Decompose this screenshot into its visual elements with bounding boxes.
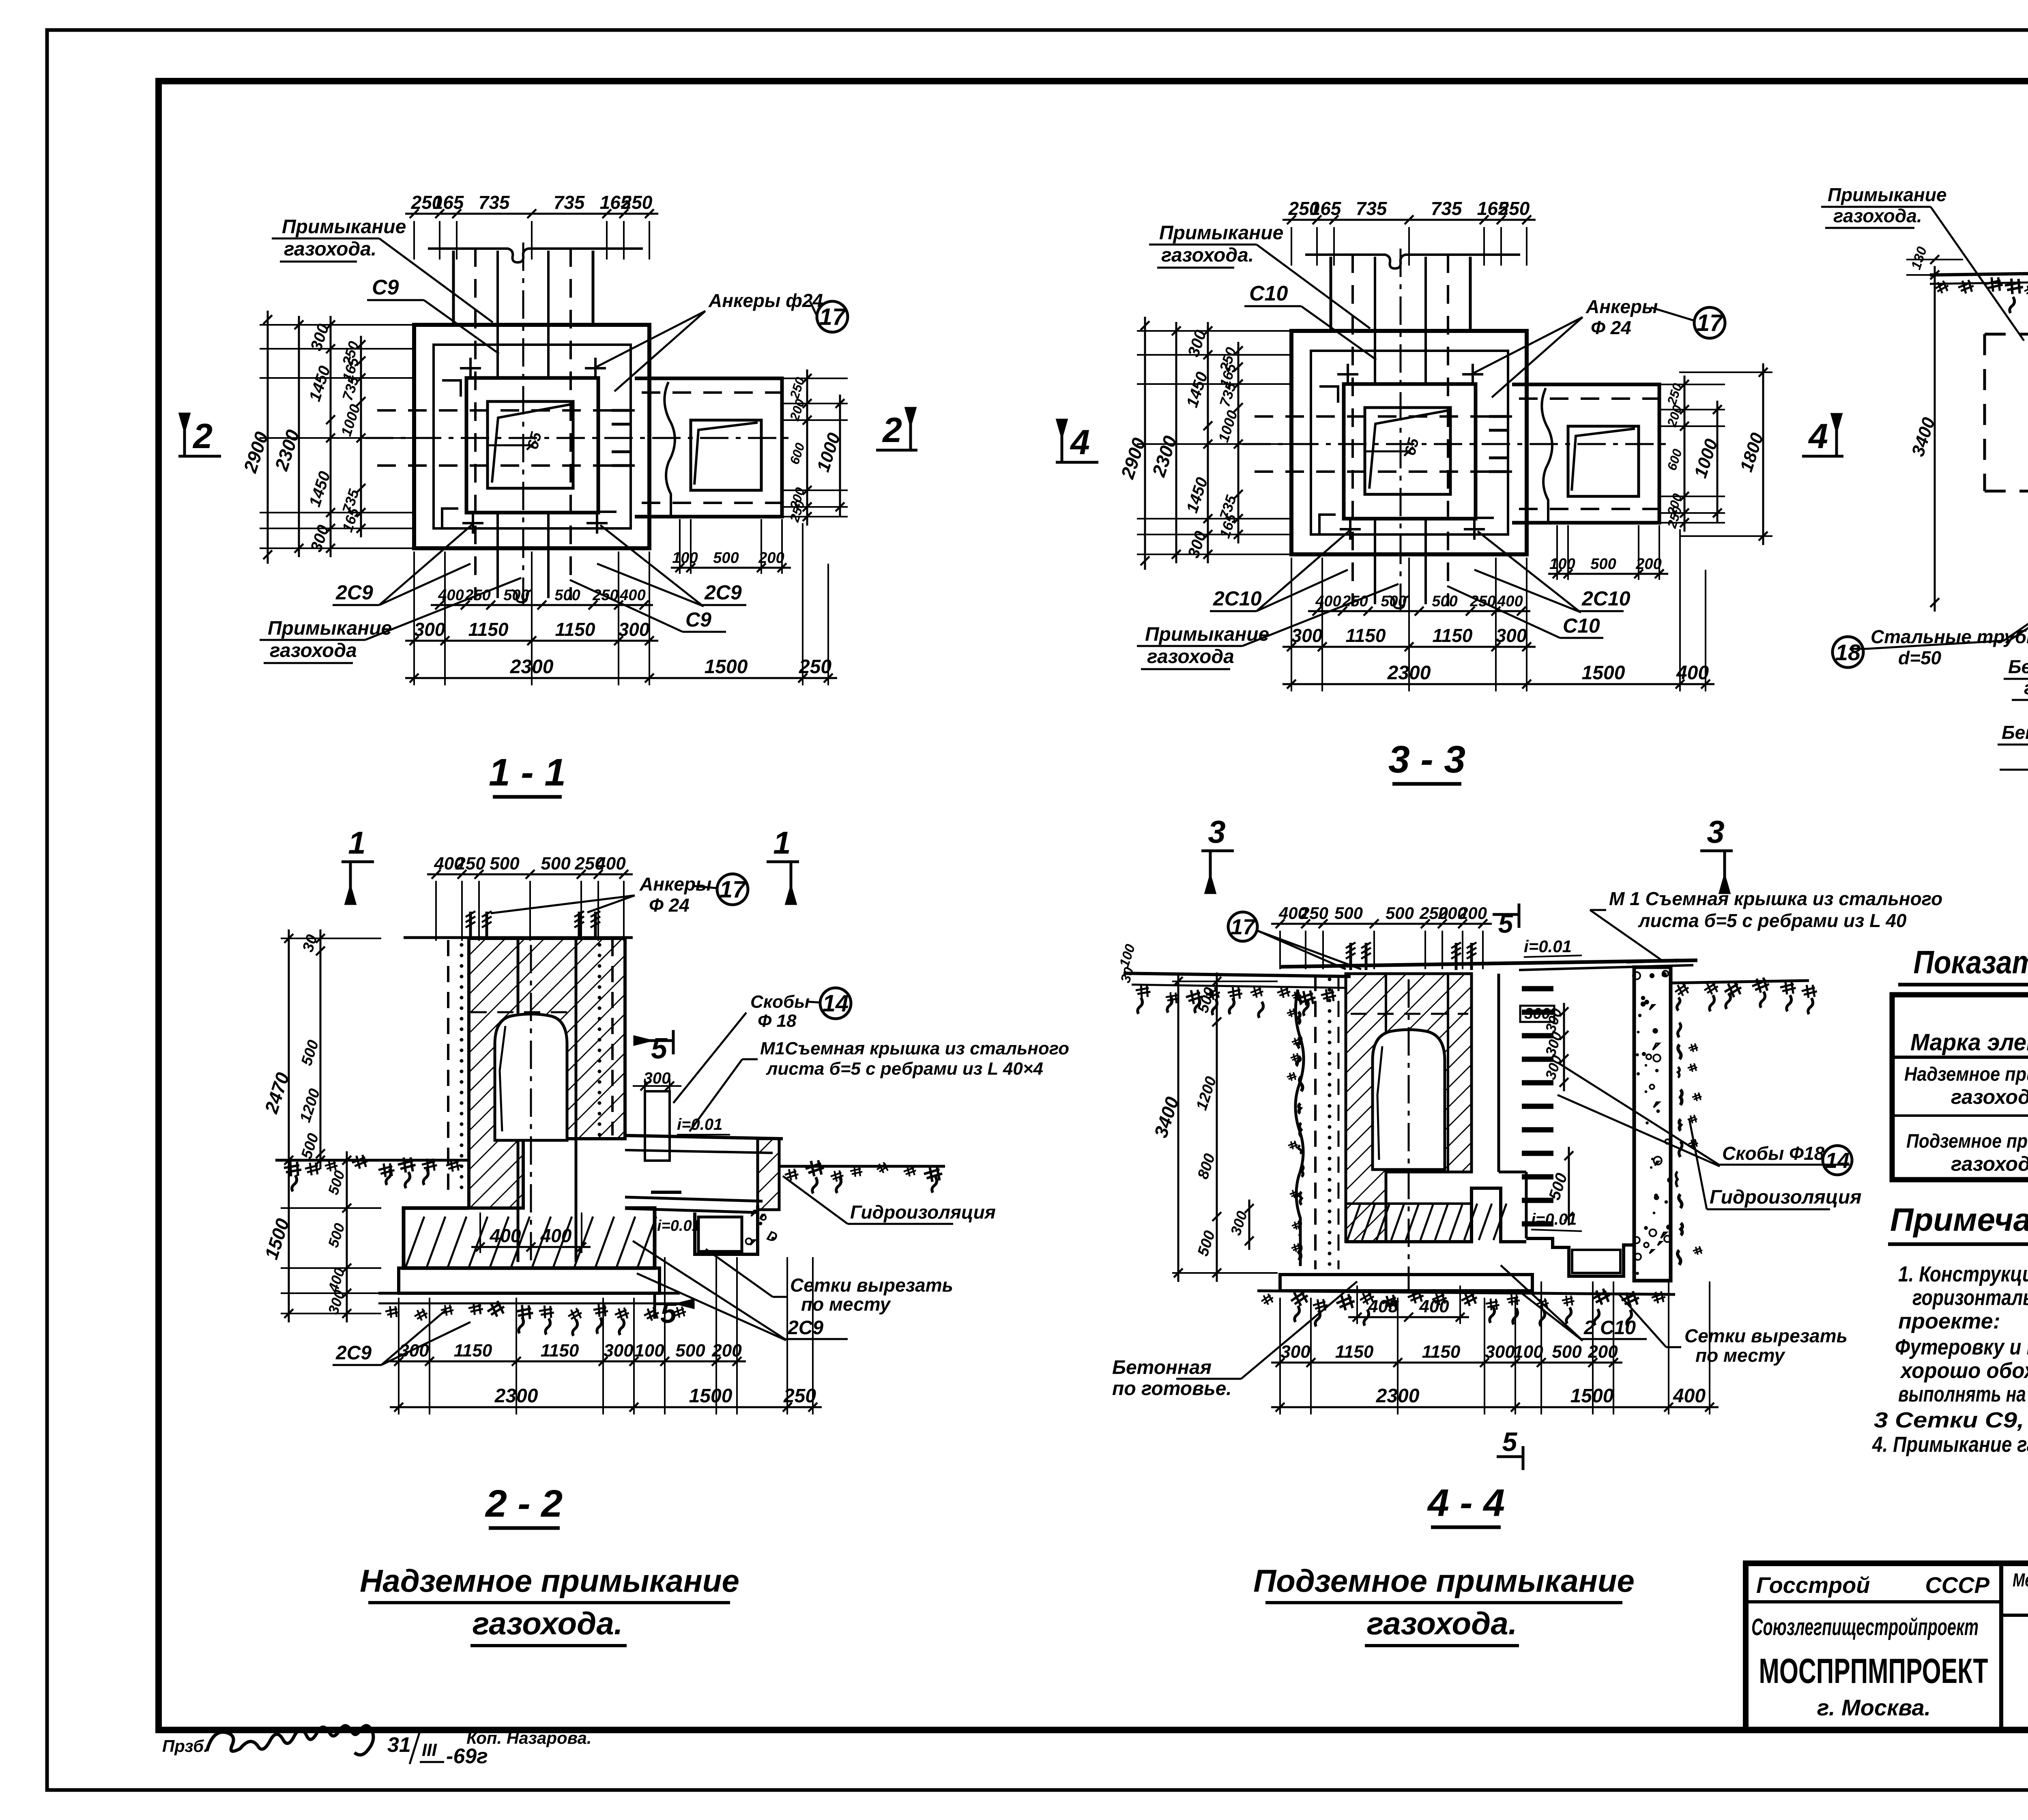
svg-text:4: 4	[1070, 423, 1090, 462]
callout circle 14 4-4	[1823, 1146, 1852, 1175]
svg-text:1150: 1150	[1422, 1342, 1461, 1362]
section 4-4 300 boxed dim	[1520, 1006, 1554, 1022]
svg-text:100: 100	[1549, 556, 1575, 573]
svg-text:хорошо обожженного кирпича,: хорошо обожженного кирпича, М 100. Футер…	[1899, 1359, 2028, 1383]
section 4-4 ground cover line left	[1124, 973, 1351, 977]
section 4-4 chimney masonry body hatched	[1346, 974, 1472, 1242]
svg-text:Союзлегпищестройпроект: Союзлегпищестройпроект	[1751, 1614, 1979, 1640]
view 3-3 right dimension chains	[1684, 376, 1686, 532]
svg-text:Анкеры: Анкеры	[639, 874, 711, 895]
svg-text:165: 165	[1310, 198, 1342, 219]
svg-text:250: 250	[1469, 593, 1495, 610]
svg-text:Надземное примыкание: Надземное примыкание	[360, 1563, 739, 1599]
view 3-3 bottom dimension chains	[1308, 610, 1530, 612]
section 4-4 lining wall lines	[1385, 974, 1387, 1242]
svg-text:Надземное примыкание: Надземное примыкание	[1904, 1064, 2028, 1085]
svg-text:400: 400	[1419, 1296, 1449, 1316]
svg-text:1150: 1150	[468, 619, 509, 640]
section 4-4 right concrete wall	[1634, 967, 1671, 1281]
callout circle 17	[817, 301, 848, 332]
svg-text:17: 17	[1231, 915, 1256, 939]
view 1-1 flue opening	[488, 401, 573, 488]
svg-text:17: 17	[819, 304, 846, 330]
svg-text:С10: С10	[1563, 614, 1600, 637]
svg-text:газохода.: газохода.	[473, 1605, 623, 1641]
svg-text:М 1 Съемная крышка из стальног: М 1 Съемная крышка из стального	[1609, 888, 1942, 909]
svg-text:300: 300	[1291, 625, 1323, 646]
section 4-4 duct interior skoby bars	[1522, 989, 1553, 1224]
section 2-2 cleaning pit	[695, 1206, 758, 1254]
svg-text:400: 400	[540, 1225, 572, 1246]
section 2-2 under-slab ground hash	[385, 1305, 400, 1319]
svg-text:300: 300	[1280, 1342, 1310, 1362]
section 4-4 bottom dimension chains	[1271, 1362, 1622, 1364]
svg-text:300: 300	[399, 1341, 429, 1361]
section 5-5 left dim chain	[1934, 266, 1936, 612]
svg-text:Прзб.: Прзб.	[162, 1736, 208, 1756]
view 1-1 flue liner diagonal	[492, 404, 571, 483]
svg-text:проекте:: проекте:	[1898, 1309, 2000, 1333]
svg-text:2С9: 2С9	[787, 1317, 823, 1339]
view 3-3 attached duct outline	[1512, 384, 1659, 523]
svg-text:2С9: 2С9	[704, 581, 742, 604]
section 2-2 shaft inner dims 400 400	[471, 1246, 591, 1248]
svg-text:Гидроизоляция: Гидроизоляция	[1710, 1187, 1861, 1208]
svg-text:2С10: 2С10	[1581, 587, 1631, 610]
section 5-5 left dashed room	[1985, 334, 2028, 491]
section 2-2 duct right hatched wall	[758, 1139, 779, 1210]
svg-text:5: 5	[660, 1297, 677, 1329]
svg-text:Металлические трубы для отв: Металлические трубы для отвода дымовых г…	[2013, 1569, 2028, 1590]
svg-text:Примыкание: Примыкание	[282, 216, 406, 238]
svg-text:Подземное примыкание: Подземное примыкание	[1253, 1563, 1635, 1599]
svg-text:d=50: d=50	[1898, 647, 1942, 668]
svg-text:100: 100	[1513, 1342, 1543, 1362]
svg-text:1 - 1: 1 - 1	[489, 751, 566, 794]
title block outline	[1746, 1563, 2028, 1730]
svg-text:газохода.: газохода.	[1951, 1086, 2028, 1108]
section 2-2 anchor bolts	[469, 912, 472, 940]
svg-text:2 С10: 2 С10	[1583, 1317, 1636, 1339]
section 2-2 pit speckles	[746, 1210, 775, 1245]
section 4-4 skoby dims	[1563, 1003, 1565, 1091]
svg-text:500: 500	[541, 854, 571, 874]
svg-text:3: 3	[1707, 814, 1724, 850]
view 3-3 duct opening	[1568, 426, 1639, 496]
svg-text:Ф 24: Ф 24	[1591, 317, 1631, 338]
svg-text:735: 735	[1431, 198, 1463, 219]
section 3-3 right dim 1800	[1762, 363, 1764, 545]
section 4-4 centreline	[1408, 979, 1410, 1290]
svg-text:Скобы: Скобы	[750, 992, 810, 1012]
svg-text:250: 250	[455, 854, 486, 874]
view 3-3 horizontal hidden duct lines	[1255, 415, 1512, 418]
section 2-2 chimney top line	[404, 936, 633, 939]
section 4-4 left dimension chains	[1177, 972, 1179, 1282]
svg-text:1150: 1150	[1335, 1342, 1374, 1362]
svg-text:Бетонная подготовка 100: Бетонная подготовка 100	[2002, 722, 2028, 743]
svg-text:2С9: 2С9	[335, 1342, 372, 1364]
svg-text:Ф 24: Ф 24	[649, 895, 690, 916]
svg-text:500: 500	[1381, 593, 1406, 610]
svg-text:1150: 1150	[1346, 625, 1386, 646]
svg-text:735: 735	[1356, 198, 1388, 219]
section 4-4 right ground line	[1671, 981, 1809, 983]
svg-text:Сетки вырезать: Сетки вырезать	[790, 1275, 953, 1296]
table grid	[1892, 995, 2028, 1180]
view 1-1 attached duct outline	[635, 378, 782, 517]
svg-text:250: 250	[1498, 198, 1530, 219]
svg-text:газохода.: газохода.	[1833, 205, 1922, 226]
svg-text:-69г: -69г	[446, 1745, 488, 1768]
svg-text:400: 400	[1673, 1385, 1706, 1407]
view 3-3 brick socle outline	[1311, 351, 1508, 534]
section 4-4 right duct wall line	[1497, 974, 1500, 1172]
svg-text:М1Съемная крышка из стального: М1Съемная крышка из стального	[760, 1039, 1069, 1058]
svg-text:735: 735	[479, 192, 510, 213]
svg-text:18: 18	[1835, 640, 1861, 665]
svg-text:Подземное примыкание: Подземное примыкание	[1906, 1131, 2028, 1152]
section 2-2 left dimension chains	[288, 929, 290, 1322]
svg-text:газохода.: газохода.	[1951, 1153, 2028, 1175]
svg-text:250: 250	[1342, 593, 1368, 610]
view 3-3 lower shaft verticals	[1374, 519, 1376, 604]
section 4-4 right membrane	[1676, 998, 1702, 1265]
svg-text:1500: 1500	[689, 1385, 733, 1407]
svg-text:2: 2	[882, 411, 902, 450]
svg-text:III: III	[422, 1740, 437, 1760]
section 2-2 lining wall lines	[517, 938, 520, 1208]
section 2-2 chimney masonry body hatched	[469, 938, 625, 1208]
view 3-3 foundation slab outline	[1291, 331, 1527, 554]
svg-text:Ф 18: Ф 18	[758, 1011, 797, 1031]
view 3-3 inner lining square	[1344, 384, 1476, 519]
svg-text:Марка элемента.: Марка элемента.	[1910, 1029, 2028, 1056]
section 2-2 footing line	[378, 1292, 680, 1295]
svg-text:Скобы Ф18: Скобы Ф18	[1722, 1143, 1825, 1164]
svg-text:200: 200	[1458, 904, 1487, 923]
view 1-1 left dimension chains	[267, 311, 269, 564]
svg-text:250: 250	[1300, 904, 1328, 923]
svg-text:400: 400	[490, 1225, 521, 1246]
svg-text:2С10: 2С10	[1213, 587, 1262, 610]
section 4-4 cover over wall	[1626, 960, 1679, 962]
svg-text:Примыкание: Примыкание	[1828, 184, 1947, 205]
svg-text:С9: С9	[685, 608, 711, 631]
svg-text:14: 14	[1825, 1148, 1850, 1173]
svg-text:300: 300	[1485, 1342, 1515, 1362]
view 3-3 top dimension chain	[1283, 219, 1536, 221]
svg-text:МОСПРПМПРОЕКТ: МОСПРПМПРОЕКТ	[1759, 1652, 1988, 1691]
callout circle 14 2-2	[820, 988, 851, 1019]
svg-text:Коп. Назарова.: Коп. Назарова.	[466, 1728, 592, 1747]
section 2-2 duct cover plate	[625, 1135, 783, 1139]
svg-text:2С9: 2С9	[335, 581, 373, 604]
view 1-1 lower shaft verticals	[496, 513, 499, 598]
svg-text:СССР: СССР	[1925, 1572, 1989, 1598]
svg-text:по месту: по месту	[801, 1294, 891, 1315]
section 2-2 duct channel floor	[625, 1197, 763, 1201]
svg-text:500: 500	[554, 587, 580, 604]
svg-text:2 - 2: 2 - 2	[485, 1482, 563, 1525]
svg-text:14: 14	[823, 990, 849, 1017]
svg-text:Госстрой: Госстрой	[1756, 1572, 1870, 1598]
svg-text:1500: 1500	[705, 656, 748, 678]
section 5-5 ground surface line	[1930, 273, 2028, 275]
svg-text:400: 400	[595, 854, 626, 874]
svg-text:Гидроизоляция: Гидроизоляция	[850, 1202, 996, 1223]
svg-text:гидроизоляция: гидроизоляция	[2024, 677, 2028, 698]
view 3-3 flue opening	[1365, 408, 1450, 494]
view 1-1 chimney shaft band above plan	[452, 251, 455, 325]
section 2-2 right membrane dashed	[611, 940, 614, 1135]
view 1-1 shaft break line	[428, 249, 643, 262]
svg-text:17: 17	[1697, 310, 1724, 336]
svg-text:1. Конструкция цоколя, фундам: 1. Конструкция цоколя, фундамента, тип в…	[1898, 1262, 2028, 1286]
svg-text:i=0.01: i=0.01	[677, 1116, 722, 1133]
view 3-3 left dimension chains	[1144, 317, 1146, 570]
svg-text:300: 300	[604, 1341, 634, 1361]
svg-text:листа б=5 с ребрами из L 40×4: листа б=5 с ребрами из L 40×4	[766, 1059, 1043, 1079]
section 2-2 foundation hatch	[469, 1139, 576, 1262]
view 1-1 duct bottom dims	[671, 567, 791, 569]
view 3-3 shaft centreline	[1400, 249, 1402, 613]
svg-text:5: 5	[651, 1032, 668, 1065]
svg-text:500: 500	[1552, 1342, 1582, 1362]
view 3-3 chimney shaft band above plan	[1330, 257, 1332, 331]
svg-text:400: 400	[619, 587, 645, 604]
svg-text:500: 500	[1432, 593, 1457, 610]
view 3-3 duct break line	[1542, 388, 1552, 522]
svg-text:400: 400	[1676, 662, 1709, 684]
svg-text:газохода.: газохода.	[1367, 1605, 1517, 1641]
svg-text:5: 5	[1502, 1427, 1518, 1457]
section 4-4 shaft dims 400 400	[1348, 1316, 1469, 1318]
svg-text:500: 500	[1334, 904, 1363, 923]
svg-text:1150: 1150	[1433, 625, 1473, 646]
svg-text:по готовье.: по готовье.	[1112, 1378, 1232, 1399]
svg-text:4. Примыкание газоходов п: 4. Примыкание газоходов показана условно…	[1872, 1432, 2028, 1457]
view 3-3 duct bottom dims	[1548, 573, 1668, 575]
view 1-1 right dimension chains	[806, 369, 808, 526]
svg-text:5: 5	[1498, 908, 1514, 938]
section 2-2 flue arch opening	[495, 1014, 567, 1141]
view 1-1 inner lining square	[466, 378, 598, 513]
section 2-2 skoba detail	[645, 1091, 670, 1161]
section 4-4 anchor bolts	[1349, 943, 1352, 970]
svg-text:i=0.01: i=0.01	[1531, 1210, 1577, 1228]
svg-text:газохода.: газохода.	[284, 238, 376, 260]
svg-text:i=0.01: i=0.01	[657, 1217, 700, 1234]
svg-text:Показатели на один элемент.: Показатели на один элемент.	[1914, 944, 2028, 980]
svg-text:3: 3	[1208, 814, 1225, 850]
svg-text:400: 400	[1497, 593, 1523, 610]
section 4-4 flue hidden top	[1351, 1013, 1468, 1015]
svg-text:Анкеры ф24: Анкеры ф24	[708, 290, 823, 311]
view 1-1 bottom dimension chains	[431, 604, 653, 606]
view 3-3 shaft break line	[1305, 255, 1520, 268]
svg-text:500: 500	[1386, 904, 1414, 923]
view 3-3 flue liner diagonal	[1369, 410, 1448, 489]
svg-text:Примыкание: Примыкание	[1159, 222, 1283, 244]
section 4-4 excavation left edge	[1295, 989, 1304, 1266]
section 4-4 floor hatched slab	[1346, 1188, 1526, 1242]
view 1-1 duct opening	[691, 420, 761, 490]
svg-text:300: 300	[1524, 1005, 1550, 1022]
svg-text:250: 250	[592, 587, 618, 604]
svg-text:500: 500	[713, 549, 739, 567]
svg-text:3 - 3: 3 - 3	[1388, 738, 1465, 781]
svg-text:газохода: газохода	[270, 640, 357, 661]
svg-text:300: 300	[1496, 625, 1527, 646]
svg-text:Примечания.: Примечания.	[1890, 1202, 2028, 1238]
svg-text:1150: 1150	[555, 619, 595, 640]
view 3-3 anchor bolts in plan	[1337, 373, 1358, 376]
svg-text:250: 250	[799, 656, 831, 678]
section 4-4 flue arch opening	[1373, 1030, 1445, 1170]
section 4-4 pit	[1526, 1238, 1634, 1276]
svg-text:Анкеры: Анкеры	[1585, 296, 1658, 317]
svg-text:1: 1	[773, 825, 791, 861]
callout circle 17 2-2	[717, 874, 748, 905]
section 4-4 top cover plate	[1280, 960, 1697, 967]
svg-text:газохода.: газохода.	[1161, 245, 1254, 266]
view 1-1 brick socle outline	[434, 345, 631, 528]
svg-text:3 Сетки С9, С10, М1 даны: 3 Сетки С9, С10, М1 даны на листе 24.	[1874, 1408, 2028, 1432]
section 2-2 ground line right	[779, 1165, 945, 1168]
svg-text:31: 31	[387, 1733, 411, 1757]
svg-text:17: 17	[720, 876, 747, 903]
svg-text:4: 4	[1808, 417, 1828, 456]
callout circle 17 4-4	[1228, 912, 1257, 941]
section 2-2 base slab	[399, 1268, 660, 1293]
view 1-1 duct break line	[664, 382, 675, 516]
svg-text:500: 500	[490, 854, 520, 874]
svg-text:500: 500	[1590, 556, 1616, 573]
section 2-2 left membrane dashed	[447, 940, 449, 1200]
section 4-4 top dimension chain	[1271, 923, 1492, 925]
section 2-2 ground line left	[275, 1159, 469, 1162]
view 1-1 horizontal hidden duct lines	[377, 409, 635, 412]
svg-text:С10: С10	[1249, 282, 1288, 305]
callout circle 17	[1694, 307, 1725, 338]
section 2-2 centreline	[530, 945, 532, 1265]
view 1-1 foundation slab outline	[414, 325, 649, 548]
svg-text:Бетонная: Бетонная	[1112, 1357, 1212, 1378]
section 4-4 left lining dashed	[1314, 975, 1317, 1269]
svg-text:735: 735	[554, 192, 585, 213]
section 2-2 top dimension chain	[427, 874, 633, 876]
svg-text:400: 400	[438, 587, 464, 604]
svg-text:500: 500	[503, 587, 529, 604]
svg-text:1: 1	[348, 825, 365, 861]
svg-text:250: 250	[783, 1385, 816, 1407]
svg-text:листа б=5 с ребрами из L 40: листа б=5 с ребрами из L 40	[1638, 910, 1907, 931]
view 3-3 duct hidden edges	[1519, 397, 1659, 400]
svg-text:1150: 1150	[454, 1341, 492, 1361]
svg-text:500: 500	[675, 1341, 705, 1361]
callout circle 18 5-5	[1833, 637, 1863, 667]
svg-text:405: 405	[1368, 1296, 1398, 1316]
svg-text:2: 2	[192, 417, 213, 456]
view 1-1 duct hidden edges	[642, 391, 782, 394]
view 1-1 top dimension chain	[405, 213, 658, 215]
svg-text:С9: С9	[372, 276, 399, 299]
svg-text:300: 300	[619, 619, 650, 640]
svg-text:100: 100	[634, 1341, 664, 1361]
svg-text:300: 300	[414, 619, 445, 640]
svg-text:горизонтальной гидроизоляции: горизонтальной гидроизоляции уточняется …	[1912, 1286, 2028, 1310]
svg-text:250: 250	[621, 192, 653, 213]
svg-text:400: 400	[1315, 593, 1341, 610]
svg-text:100: 100	[672, 549, 698, 567]
svg-text:Футеровку и кирпичные стенк: Футеровку и кирпичные стенки приямка вып…	[1895, 1335, 2028, 1359]
svg-text:165: 165	[433, 192, 464, 213]
section 2-2 foundation body	[404, 1208, 655, 1268]
svg-text:Бетонный пол-ва: Бетонный пол-ва	[2008, 656, 2028, 677]
svg-text:1150: 1150	[541, 1341, 579, 1361]
svg-text:250: 250	[464, 587, 490, 604]
signature squiggle	[207, 1726, 373, 1755]
svg-text:4 - 4: 4 - 4	[1427, 1481, 1505, 1524]
view 1-1 shaft centreline	[522, 243, 524, 607]
section 4-4 bottom slab	[1280, 1275, 1532, 1291]
view 1-1 anchor bolts in plan	[460, 367, 481, 369]
svg-text:1500: 1500	[1582, 662, 1625, 684]
svg-text:газохода: газохода	[1147, 646, 1234, 667]
section 2-2 bottom dimension chains	[390, 1361, 746, 1363]
section 2-2 flue hidden top	[470, 1011, 576, 1013]
svg-text:i=0.01: i=0.01	[1524, 937, 1572, 956]
section 2-2 flue liner seam	[500, 1026, 505, 1131]
svg-text:г. Москва.: г. Москва.	[1817, 1695, 1931, 1720]
svg-text:выполнять на глиняном раств: выполнять на глиняном растворе.	[1898, 1382, 2028, 1406]
